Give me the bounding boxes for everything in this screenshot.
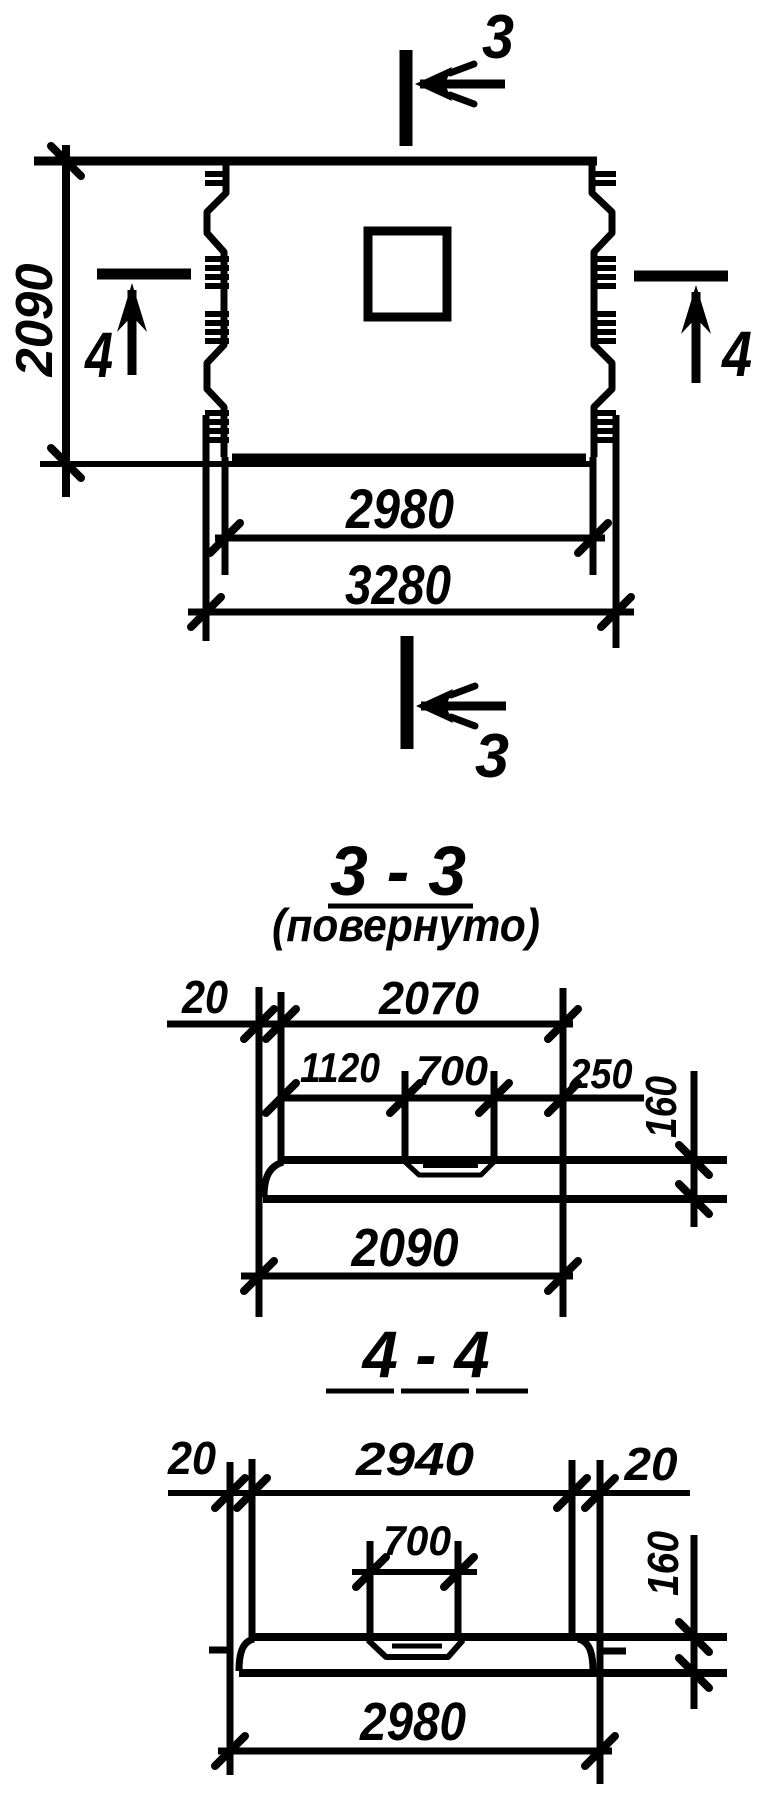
4-4 dim line 160: [691, 1535, 698, 1709]
section mark 4 left: arrowhead: [117, 283, 147, 332]
4-4 right end curve: [578, 1639, 593, 1671]
4-4 left end curve: [239, 1639, 254, 1671]
square opening: [368, 231, 447, 317]
tick: [679, 1145, 709, 1175]
svg-text:2090: 2090: [6, 263, 64, 377]
panel top edge + extension: [34, 157, 597, 166]
svg-text:2980: 2980: [345, 477, 454, 540]
section mark 4 right: arrowhead: [681, 285, 711, 334]
tick: [479, 1083, 509, 1113]
bottom extension line: [40, 461, 594, 467]
svg-text:3: 3: [482, 3, 514, 72]
3-3 right face line: [560, 988, 567, 1317]
title 3-3 underline: [328, 904, 473, 909]
3-3 left outer extension line: [256, 987, 263, 1317]
svg-text:3280: 3280: [345, 553, 451, 616]
svg-text:1120: 1120: [300, 1044, 380, 1091]
4-4 recess inner line: [392, 1644, 442, 1649]
right inner extension line: [590, 457, 597, 575]
svg-text:160: 160: [639, 1531, 688, 1596]
4-4 recess trapezoid: [368, 1640, 463, 1657]
barb: [451, 686, 475, 695]
tick: [356, 1557, 386, 1587]
left outer extension line: [203, 415, 210, 641]
svg-text:160: 160: [637, 1076, 686, 1138]
svg-text:4: 4: [83, 319, 113, 391]
4-4 slab bottom face: [239, 1669, 727, 1677]
svg-text:2090: 2090: [351, 1218, 459, 1278]
svg-text:20: 20: [623, 1438, 677, 1490]
svg-text:3: 3: [475, 722, 509, 791]
tick: [237, 1478, 267, 1508]
tick: [557, 1478, 587, 1508]
left edge hatch ticks: [205, 171, 229, 177]
4-4 recess right line: [455, 1541, 462, 1637]
4-4 dim line 700: [352, 1569, 477, 1575]
section mark 3 top: upper barb: [450, 64, 474, 73]
4-4 dim line 2980: [218, 1748, 612, 1755]
tick 2090 top: [51, 146, 81, 176]
svg-text:250: 250: [569, 1050, 633, 1097]
tick: [548, 1083, 578, 1113]
3-3 left face line: [278, 992, 285, 1160]
4-4 recess left line: [367, 1541, 374, 1637]
panel bottom edge: [232, 454, 586, 463]
tick: [210, 523, 240, 553]
panel right keyed edge: [592, 161, 612, 457]
4-4 right lip tick: [601, 1648, 626, 1655]
dimension 2090 line: [62, 145, 70, 497]
svg-text:(повернуто): (повернуто): [272, 899, 540, 951]
tick: [191, 597, 221, 627]
right outer extension line: [613, 415, 620, 648]
3-3 dim line 2090: [241, 1273, 573, 1280]
3-3 recess left line: [402, 1071, 409, 1160]
tick: [244, 1009, 274, 1039]
4-4 right outer extension line: [597, 1460, 604, 1784]
title 4-4 underline: [326, 1389, 528, 1394]
tick: [244, 1261, 274, 1291]
left inner extension line: [222, 457, 229, 575]
3-3 recess inner line: [423, 1164, 478, 1168]
4-4 left face line: [249, 1459, 256, 1637]
svg-text:20: 20: [167, 1432, 216, 1484]
4-4 slab top face: [250, 1633, 727, 1641]
tick: [585, 1736, 615, 1766]
3-3 left end curve: [264, 1162, 283, 1197]
tick: [215, 1736, 245, 1766]
3-3 dim line 1120/700/250: [281, 1095, 644, 1102]
section mark 3 top: cut line: [400, 50, 413, 146]
svg-text:4 - 4: 4 - 4: [361, 1317, 490, 1391]
tick: [679, 1658, 709, 1688]
4-4 right face line: [569, 1460, 576, 1637]
tick: [601, 597, 631, 627]
section mark 3 bottom: cut line: [401, 636, 414, 749]
section mark 3 bottom: arrowhead: [416, 689, 453, 723]
tick: [266, 1009, 296, 1039]
3-3 recess trapezoid: [405, 1162, 494, 1175]
section mark 3 bottom: arrow shaft: [421, 702, 506, 711]
4-4 left outer extension line: [227, 1462, 234, 1775]
svg-text:2070: 2070: [378, 972, 479, 1024]
tick: [266, 1083, 296, 1113]
svg-text:2940: 2940: [355, 1433, 475, 1485]
section mark 4 right: cut line: [634, 271, 728, 282]
right edge hatch ticks: [591, 171, 616, 177]
svg-text:700: 700: [416, 1047, 488, 1094]
3-3 dim line 20/2070: [167, 1021, 573, 1028]
tick: [215, 1478, 245, 1508]
4-4 left lip tick: [209, 1647, 232, 1654]
section mark 4 left: arrow shaft: [128, 290, 137, 375]
panel left keyed edge: [207, 161, 226, 457]
section mark 3 top: arrowhead: [415, 67, 452, 101]
barb: [451, 717, 475, 726]
3-3 dim line 160: [691, 1071, 698, 1227]
tick: [585, 1478, 615, 1508]
svg-text:4: 4: [720, 318, 752, 390]
tick: [390, 1083, 420, 1113]
svg-text:700: 700: [383, 1517, 451, 1564]
tick: [679, 1622, 709, 1652]
3-3 recess right line: [491, 1071, 498, 1160]
4-4 dim line 20/2940/20: [168, 1490, 690, 1496]
dimension 3280 line plan: [188, 609, 634, 616]
tick: [548, 1009, 578, 1039]
section mark 3 top: arrow shaft: [420, 80, 505, 89]
tick: [679, 1184, 709, 1214]
3-3 slab top face: [281, 1156, 727, 1164]
3-3 slab bottom face: [263, 1195, 727, 1203]
svg-text:2980: 2980: [359, 1692, 466, 1752]
tick: [444, 1557, 474, 1587]
section mark 3 top: lower barb: [450, 95, 474, 104]
dimension 2980 line plan: [215, 535, 605, 542]
svg-text:20: 20: [181, 971, 228, 1023]
section mark 4 right: arrow shaft: [692, 292, 701, 383]
tick: [578, 523, 608, 553]
tick: [548, 1261, 578, 1291]
section mark 4 left: cut line: [97, 269, 191, 280]
tick 2090 bottom: [51, 448, 81, 478]
